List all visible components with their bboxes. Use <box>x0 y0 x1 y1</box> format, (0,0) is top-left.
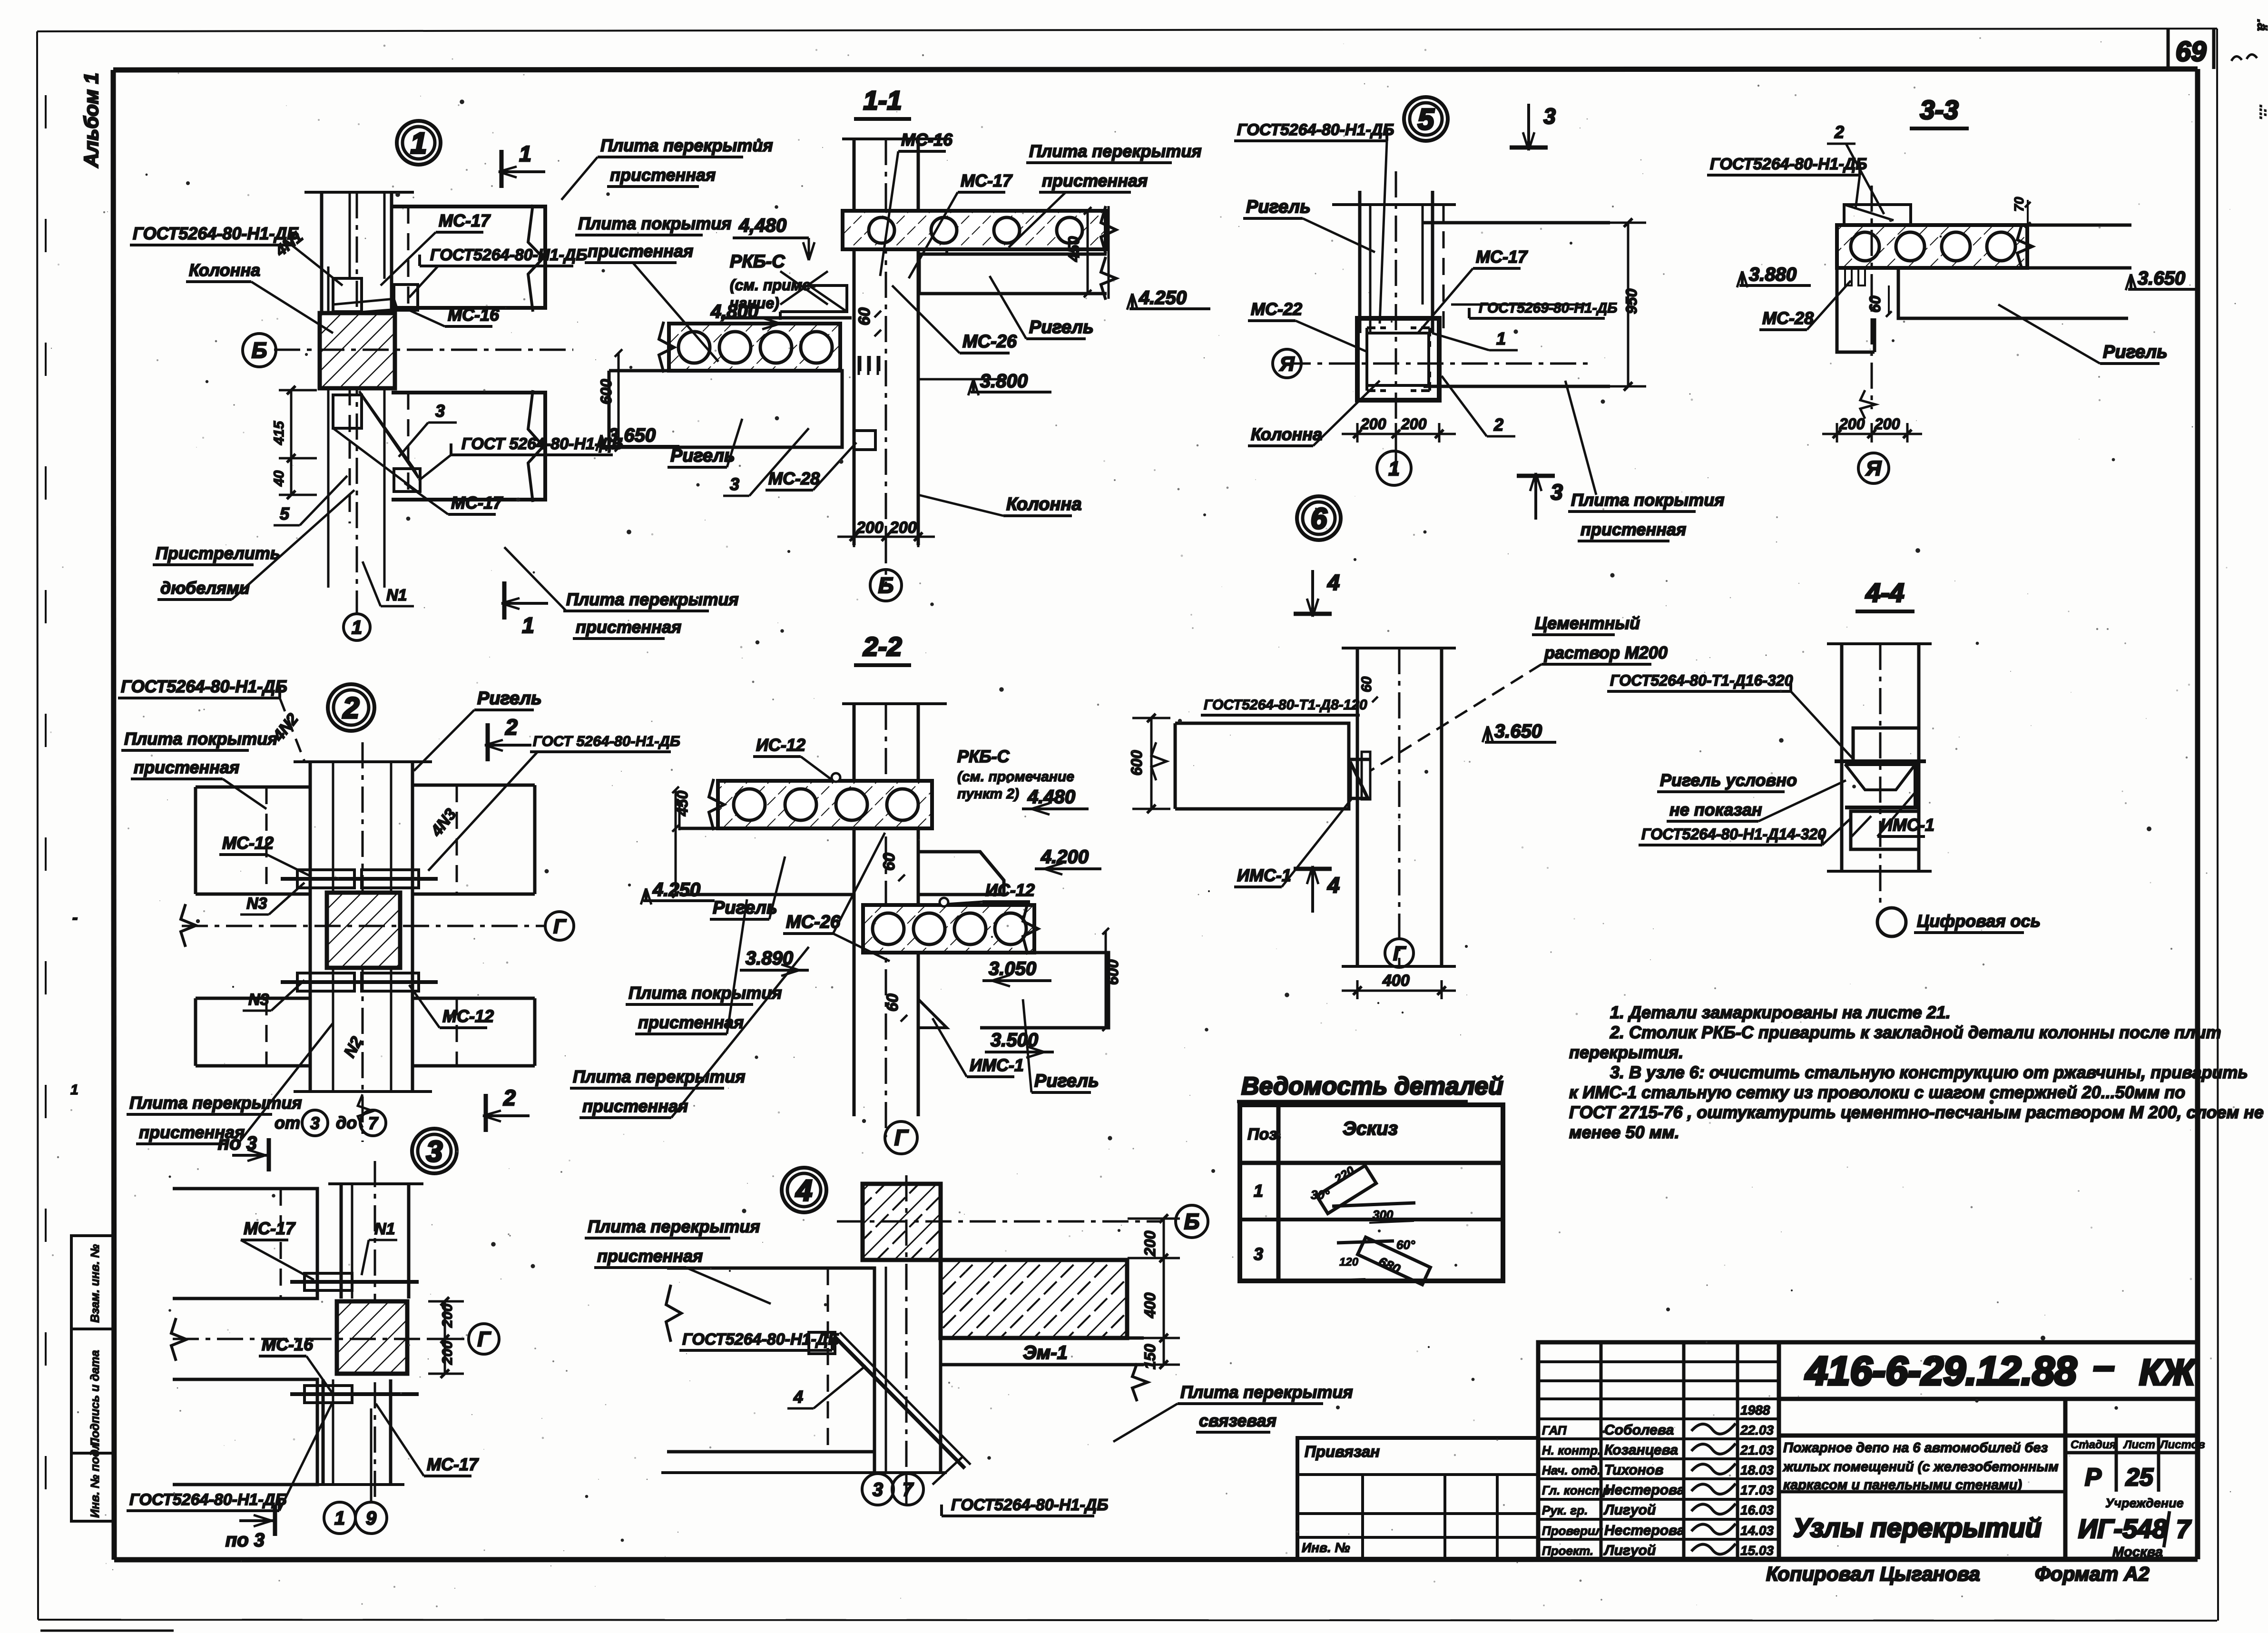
svg-text:2: 2 <box>503 1085 516 1110</box>
svg-text:Нач. отд.: Нач. отд. <box>1542 1463 1601 1477</box>
svg-text:Эскиз: Эскиз <box>1343 1118 1398 1139</box>
svg-text:МС-26: МС-26 <box>786 912 841 932</box>
svg-text:1: 1 <box>1254 1181 1263 1200</box>
svg-text:25: 25 <box>2125 1464 2154 1491</box>
svg-text:Б: Б <box>252 338 267 363</box>
svg-text:Альбом 1: Альбом 1 <box>80 73 102 168</box>
svg-text:Плита перекрытия: Плита перекрытия <box>588 1217 760 1236</box>
svg-text:Пристрелить: Пристрелить <box>156 543 280 563</box>
svg-text:3.800: 3.800 <box>980 371 1028 392</box>
svg-text:пристенная: пристенная <box>1042 171 1148 190</box>
svg-text:Соболева: Соболева <box>1604 1422 1674 1438</box>
svg-text:1: 1 <box>70 1082 79 1098</box>
svg-text:до: до <box>336 1113 357 1132</box>
svg-text:МС-16: МС-16 <box>262 1335 314 1354</box>
svg-text:200: 200 <box>440 1341 455 1365</box>
svg-text:N1: N1 <box>386 586 407 604</box>
svg-text:3: 3 <box>730 474 739 494</box>
svg-text:120: 120 <box>1339 1256 1359 1269</box>
svg-text:3. В узле 6: очистить стальн: 3. В узле 6: очистить стальную конструкц… <box>1610 1062 2248 1082</box>
svg-text:Эм-1: Эм-1 <box>1023 1342 1068 1363</box>
svg-text:(см. приме-: (см. приме- <box>730 276 816 294</box>
svg-text:Г: Г <box>477 1328 491 1351</box>
svg-text:3: 3 <box>873 1479 883 1500</box>
svg-text:по 3: по 3 <box>226 1530 265 1551</box>
svg-text:2: 2 <box>1493 415 1503 434</box>
svg-text:200: 200 <box>1401 415 1427 433</box>
svg-text:4.250: 4.250 <box>652 879 700 900</box>
svg-text:Б: Б <box>878 573 894 598</box>
svg-text:Ригель: Ригель <box>2103 342 2168 362</box>
svg-text:МС-17: МС-17 <box>244 1219 296 1238</box>
svg-text:Пожарное депо на 6 автомобилей: Пожарное депо на 6 автомобилей без <box>1783 1440 2048 1456</box>
svg-text:5: 5 <box>1418 103 1435 136</box>
svg-text:14.03: 14.03 <box>1740 1523 1774 1538</box>
svg-text:МС-26: МС-26 <box>962 332 1017 352</box>
svg-text:400: 400 <box>1141 1292 1159 1318</box>
svg-text:менее 50 мм.: менее 50 мм. <box>1569 1122 1679 1142</box>
svg-text:69: 69 <box>2176 36 2207 67</box>
svg-text:4,800: 4,800 <box>710 301 758 322</box>
svg-text:Г: Г <box>894 1125 909 1150</box>
svg-text:200: 200 <box>856 519 884 537</box>
svg-text:416-6-29.12.88: 416-6-29.12.88 <box>1805 1348 2077 1393</box>
svg-text:200: 200 <box>1839 415 1865 433</box>
svg-text:4,480: 4,480 <box>738 215 786 236</box>
svg-text:4-4: 4-4 <box>1865 578 1905 608</box>
svg-text:РКБ-С: РКБ-С <box>957 747 1010 766</box>
svg-text:Формат А2: Формат А2 <box>2035 1563 2150 1585</box>
svg-text:950: 950 <box>1623 288 1640 314</box>
svg-text:МС-16: МС-16 <box>901 130 953 149</box>
svg-text:2: 2 <box>1834 122 1844 142</box>
svg-text:пункт 2): пункт 2) <box>957 786 1019 802</box>
svg-text:ГОСТ 2715-76 , оштукатурить: ГОСТ 2715-76 , оштукатурить цементно-пес… <box>1569 1102 2264 1122</box>
svg-text:МС-12: МС-12 <box>222 833 274 853</box>
svg-text:1. Детали замаркированы на: 1. Детали замаркированы на листе 21. <box>1610 1003 1951 1022</box>
svg-text:ГОСТ5264-80-Н1-ДБ: ГОСТ5264-80-Н1-ДБ <box>133 224 299 243</box>
svg-text:200: 200 <box>1360 415 1386 433</box>
svg-text:4: 4 <box>1327 570 1340 595</box>
svg-text:ИГ-548: ИГ-548 <box>2078 1514 2168 1544</box>
svg-text:Тихонов: Тихонов <box>1604 1462 1663 1478</box>
svg-text:200: 200 <box>889 519 917 537</box>
svg-text:Проект.: Проект. <box>1542 1544 1593 1558</box>
svg-text:Подпись и дата: Подпись и дата <box>88 1350 102 1446</box>
svg-text:1988: 1988 <box>1740 1403 1770 1417</box>
svg-text:Ведомость деталей: Ведомость деталей <box>1241 1072 1503 1100</box>
svg-text:4.200: 4.200 <box>1041 846 1089 867</box>
svg-text:3.650: 3.650 <box>1494 721 1542 742</box>
svg-text:пристенная: пристенная <box>610 165 716 185</box>
svg-text:2: 2 <box>343 692 359 725</box>
svg-text:15.03: 15.03 <box>1740 1543 1774 1558</box>
svg-text:3.050: 3.050 <box>989 958 1036 979</box>
svg-text:ГАП: ГАП <box>1542 1423 1567 1437</box>
svg-text:60°: 60° <box>1396 1238 1415 1252</box>
svg-text:Плита перекрытия: Плита перекрытия <box>573 1067 746 1086</box>
svg-text:450: 450 <box>1065 236 1082 262</box>
svg-text:200: 200 <box>440 1304 455 1328</box>
svg-text:Цифровая ось: Цифровая ось <box>1917 911 2041 931</box>
svg-text:по 3: по 3 <box>218 1133 257 1154</box>
svg-text:ИМС-1: ИМС-1 <box>970 1055 1024 1075</box>
svg-text:МС-16: МС-16 <box>448 305 500 325</box>
svg-text:Плита перекрытия: Плита перекрытия <box>566 590 739 609</box>
svg-text:Г: Г <box>553 915 567 937</box>
svg-text:60: 60 <box>880 853 898 871</box>
svg-text:150: 150 <box>1141 1344 1159 1369</box>
svg-text:ГОСТ 5264-80-Н1-ДБ: ГОСТ 5264-80-Н1-ДБ <box>533 733 680 749</box>
svg-text:3: 3 <box>310 1113 320 1133</box>
svg-text:3.650: 3.650 <box>2138 268 2185 289</box>
svg-text:9: 9 <box>366 1508 377 1529</box>
svg-text:ГОСТ5264-80-Н1-ДБ: ГОСТ5264-80-Н1-ДБ <box>430 246 587 264</box>
svg-text:связевая: связевая <box>1199 1411 1276 1430</box>
svg-text:1: 1 <box>1496 329 1506 348</box>
svg-text:Лигуой: Лигуой <box>1603 1543 1656 1558</box>
svg-text:Взам. инв. №: Взам. инв. № <box>88 1244 102 1323</box>
svg-text:Инв. №: Инв. № <box>1302 1540 1350 1555</box>
svg-text:Лист: Лист <box>2123 1438 2155 1451</box>
svg-text:Москва: Москва <box>2112 1544 2163 1560</box>
svg-text:60: 60 <box>1866 295 1884 313</box>
svg-text:18.03: 18.03 <box>1740 1463 1774 1477</box>
svg-text:МС-28: МС-28 <box>1762 308 1814 328</box>
svg-text:Листов: Листов <box>2159 1438 2205 1451</box>
svg-text:2: 2 <box>505 715 518 739</box>
svg-text:3: 3 <box>1543 104 1556 128</box>
svg-text:200: 200 <box>1141 1230 1159 1257</box>
svg-text:N3: N3 <box>248 991 269 1009</box>
svg-text:пристенная: пристенная <box>582 1096 688 1116</box>
svg-text:60: 60 <box>855 307 874 325</box>
svg-text:Колонна: Колонна <box>1251 424 1322 444</box>
svg-text:ГОСТ5264-80-Н1-ДБ: ГОСТ5264-80-Н1-ДБ <box>1237 121 1394 139</box>
svg-text:70: 70 <box>2012 197 2026 212</box>
svg-text:600: 600 <box>1128 750 1145 776</box>
svg-text:ГОСТ5264-80-Н1-Д14-320: ГОСТ5264-80-Н1-Д14-320 <box>1641 826 1826 843</box>
svg-text:ГОСТ5264-80-Н1-ДБ: ГОСТ5264-80-Н1-ДБ <box>129 1491 286 1509</box>
svg-text:(см. промечание: (см. промечание <box>957 769 1074 785</box>
svg-text:400: 400 <box>1382 972 1410 990</box>
svg-text:Плита покрытия: Плита покрытия <box>578 214 731 233</box>
svg-text:200: 200 <box>1874 415 1900 433</box>
svg-text:Плита перекрытия: Плита перекрытия <box>1180 1382 1353 1402</box>
svg-text:7: 7 <box>368 1113 379 1133</box>
svg-text:Ригель: Ригель <box>477 689 542 708</box>
svg-text:Инв. № подл.: Инв. № подл. <box>88 1439 102 1518</box>
svg-text:Б: Б <box>1184 1209 1200 1234</box>
svg-text:3.880: 3.880 <box>1749 264 1797 285</box>
svg-text:МС-17: МС-17 <box>1476 247 1528 266</box>
svg-text:40: 40 <box>271 470 287 487</box>
svg-text:Ригель: Ригель <box>1246 197 1311 217</box>
svg-text:17.03: 17.03 <box>1740 1483 1774 1497</box>
svg-text:РКБ-С: РКБ-С <box>730 252 785 272</box>
svg-text:4: 4 <box>793 1387 803 1407</box>
svg-text:1: 1 <box>334 1508 345 1529</box>
svg-text:ГОСТ5264-80-Т1-Д16-320: ГОСТ5264-80-Т1-Д16-320 <box>1610 672 1793 689</box>
svg-text:раствор М200: раствор М200 <box>1544 643 1668 662</box>
svg-text:1: 1 <box>1388 457 1399 480</box>
svg-text:МС-17: МС-17 <box>427 1455 479 1474</box>
svg-text:Ригель: Ригель <box>1034 1071 1099 1091</box>
svg-text:ГОСТ5264-80-Т1-Д8-120: ГОСТ5264-80-Т1-Д8-120 <box>1204 697 1367 713</box>
svg-text:3: 3 <box>435 401 445 421</box>
svg-text:3: 3 <box>1254 1244 1263 1264</box>
svg-text:Лигуой: Лигуой <box>1603 1502 1656 1518</box>
svg-text:ГОСТ5264-80-Н1-ДБ: ГОСТ5264-80-Н1-ДБ <box>682 1330 839 1348</box>
svg-text:22.03: 22.03 <box>1740 1423 1774 1437</box>
svg-text:.ä: .ä <box>2254 19 2268 31</box>
svg-text:Р: Р <box>2085 1464 2101 1491</box>
svg-text:60: 60 <box>1359 676 1375 692</box>
svg-text:ГОСТ5269-80-Н1-ДБ: ГОСТ5269-80-Н1-ДБ <box>1479 300 1618 316</box>
svg-text:.::.: .::. <box>2257 105 2268 120</box>
svg-text:от: от <box>275 1113 300 1132</box>
svg-text:жилых помещений (с железобето: жилых помещений (с железобетонным <box>1782 1459 2059 1475</box>
svg-text:Цементный: Цементный <box>1535 613 1640 633</box>
svg-text:пристенная: пристенная <box>1581 520 1686 539</box>
svg-text:N1: N1 <box>374 1220 395 1238</box>
svg-text:Ригель условно: Ригель условно <box>1660 770 1797 790</box>
svg-text:Проверил: Проверил <box>1542 1524 1603 1538</box>
svg-text:5: 5 <box>280 504 290 523</box>
svg-text:пристенная: пристенная <box>134 757 239 777</box>
svg-text:Я: Я <box>1279 353 1295 375</box>
svg-text:Плита перекрытия: Плита перекрытия <box>600 136 773 155</box>
svg-text:6: 6 <box>1311 502 1327 535</box>
svg-text:2-2: 2-2 <box>863 631 902 661</box>
svg-text:МС-17: МС-17 <box>961 171 1013 190</box>
svg-text:600: 600 <box>1104 959 1121 985</box>
svg-text:1-1: 1-1 <box>864 85 902 115</box>
svg-text:4.480: 4.480 <box>1027 787 1075 807</box>
svg-text:Н. контр.: Н. контр. <box>1542 1443 1601 1457</box>
svg-text:не показан: не показан <box>1669 800 1762 819</box>
svg-text:Ригель: Ригель <box>1029 317 1094 337</box>
svg-text:Плита покрытия: Плита покрытия <box>1571 490 1724 510</box>
svg-text:1: 1 <box>352 617 362 638</box>
svg-text:Я: Я <box>1865 457 1882 480</box>
svg-text:Козанцева: Козанцева <box>1604 1442 1678 1458</box>
svg-text:ГОСТ5264-80-Н1-ДБ: ГОСТ5264-80-Н1-ДБ <box>121 677 287 696</box>
svg-text:к ИМС-1 стальную сетку и: к ИМС-1 стальную сетку из проволоки с ша… <box>1569 1082 2185 1102</box>
svg-text:Узлы перекрытий: Узлы перекрытий <box>1793 1513 2042 1543</box>
svg-text:Колонна: Колонна <box>189 260 260 280</box>
svg-text:30°: 30° <box>1311 1188 1330 1202</box>
svg-text:ГОСТ5264-80-Н1-ДБ: ГОСТ5264-80-Н1-ДБ <box>951 1496 1108 1514</box>
svg-text:Колонна: Колонна <box>1006 494 1082 514</box>
svg-text:пристенная: пристенная <box>597 1246 703 1266</box>
svg-text:ИС-12: ИС-12 <box>756 735 805 755</box>
svg-text:Плита покрытия: Плита покрытия <box>628 983 782 1003</box>
svg-text:415: 415 <box>271 421 287 445</box>
svg-text:Плита перекрытия: Плита перекрытия <box>1029 141 1202 161</box>
svg-text:Нестерова: Нестерова <box>1604 1523 1685 1538</box>
svg-text:КЖ: КЖ <box>2139 1352 2197 1393</box>
svg-text:Ригель: Ригель <box>670 446 735 466</box>
svg-text:-: - <box>72 909 78 927</box>
svg-text:МС-17: МС-17 <box>451 493 503 512</box>
svg-text:Г: Г <box>1393 942 1406 964</box>
svg-text:ИМС-1: ИМС-1 <box>1237 866 1291 885</box>
svg-text:600: 600 <box>598 379 615 404</box>
svg-text:–: – <box>2093 1345 2115 1387</box>
svg-text:МС-17: МС-17 <box>439 211 491 230</box>
svg-text:Учреждение: Учреждение <box>2105 1496 2184 1510</box>
svg-text:МС-28: МС-28 <box>768 469 820 488</box>
svg-text:3.650: 3.650 <box>608 425 656 446</box>
svg-text:300: 300 <box>1373 1208 1394 1222</box>
svg-text:ГОСТ5264-80-Н1-ДБ: ГОСТ5264-80-Н1-ДБ <box>1710 155 1867 173</box>
svg-text:7: 7 <box>903 1479 914 1500</box>
svg-text:1: 1 <box>522 613 534 638</box>
svg-text:4.250: 4.250 <box>1139 287 1187 308</box>
svg-text:пристенная: пристенная <box>588 241 693 261</box>
svg-text:ИС-12: ИС-12 <box>985 880 1035 900</box>
svg-text:4: 4 <box>795 1174 812 1207</box>
svg-text:1: 1 <box>519 141 531 166</box>
svg-text:Гл. констр.: Гл. констр. <box>1542 1483 1614 1497</box>
svg-text:N3: N3 <box>246 895 267 913</box>
svg-text:Рук. гр.: Рук. гр. <box>1542 1503 1588 1517</box>
svg-text:Копировал Цыганова: Копировал Цыганова <box>1766 1563 1980 1585</box>
svg-text:21.03: 21.03 <box>1740 1443 1774 1457</box>
svg-text:16.03: 16.03 <box>1740 1503 1774 1517</box>
svg-text:60: 60 <box>884 994 902 1012</box>
svg-text:7: 7 <box>2176 1515 2192 1544</box>
svg-text:Поз.: Поз. <box>1247 1125 1282 1143</box>
svg-text:Нестерова: Нестерова <box>1604 1482 1685 1498</box>
svg-text:3: 3 <box>426 1135 442 1168</box>
svg-text:МС-22: МС-22 <box>1251 299 1302 319</box>
svg-text:1: 1 <box>411 127 427 160</box>
svg-text:перекрытия.: перекрытия. <box>1569 1043 1683 1062</box>
svg-text:Плита покрытия: Плита покрытия <box>124 729 277 748</box>
svg-text:3-3: 3-3 <box>1920 95 1959 125</box>
svg-text:2. Столик РКБ-С приварить к з: 2. Столик РКБ-С приварить к закладной де… <box>1610 1023 2221 1042</box>
svg-text:3: 3 <box>1551 480 1563 504</box>
svg-text:4: 4 <box>1327 873 1340 897</box>
svg-text:Привязан: Привязан <box>1305 1443 1380 1460</box>
svg-text:Стадия: Стадия <box>2071 1438 2116 1451</box>
